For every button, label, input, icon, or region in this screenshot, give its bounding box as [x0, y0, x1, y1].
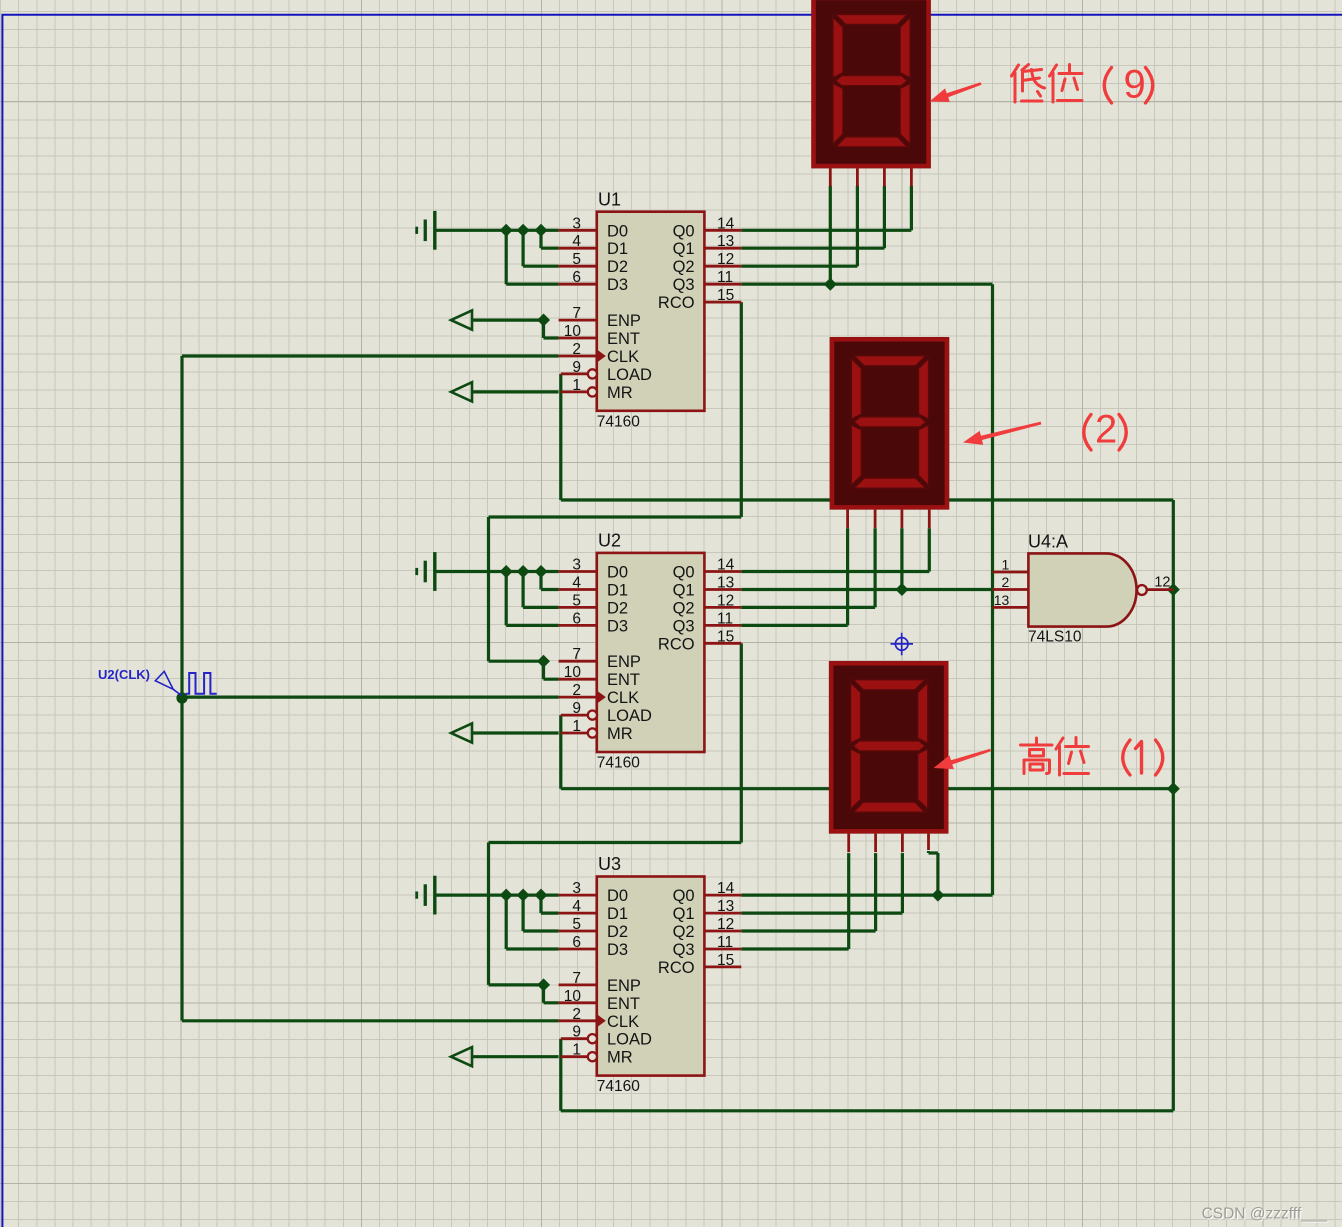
svg-text:3: 3 [572, 215, 581, 232]
7-segment display DS3 (high digit) [829, 661, 949, 852]
svg-text:15: 15 [717, 628, 734, 645]
svg-text:D1: D1 [607, 905, 628, 923]
svg-text:74160: 74160 [597, 413, 640, 430]
wire U3 LOAD/MR tie down to reset rail [561, 1039, 1174, 1111]
svg-text:6: 6 [572, 934, 581, 951]
svg-text:2: 2 [572, 341, 581, 358]
svg-text:D2: D2 [607, 599, 628, 617]
svg-text:CLK: CLK [607, 689, 639, 707]
wire U1 Q2 to DS1 pin2 [741, 186, 857, 266]
wire U2 Q1 to DS2 pin3 and U4 input 2 [741, 528, 992, 589]
svg-text:RCO: RCO [658, 294, 695, 312]
svg-text:1: 1 [1002, 557, 1010, 573]
node U1 D0 junction a [500, 224, 513, 237]
svg-text:9: 9 [572, 1024, 581, 1041]
svg-text:D3: D3 [607, 617, 628, 635]
svg-text:4: 4 [572, 575, 581, 592]
svg-text:5: 5 [572, 592, 581, 609]
wire U2 MR net to terminal arrow [472, 731, 559, 734]
svg-text:15: 15 [717, 952, 734, 969]
svg-text:74160: 74160 [597, 755, 640, 772]
node U1 ENP junction [537, 314, 550, 327]
wire ground net to U3 D0-D3 [436, 895, 558, 949]
svg-text:MR: MR [607, 1049, 633, 1067]
U4:A value label 74LS10 [1028, 629, 1082, 646]
svg-text:1: 1 [572, 1042, 581, 1059]
svg-text:ENT: ENT [607, 330, 640, 348]
svg-text:MR: MR [607, 384, 633, 402]
node U3 D0 junction a [500, 889, 513, 902]
annotation text (2) [1084, 408, 1127, 452]
svg-text:LOAD: LOAD [607, 707, 652, 725]
svg-text:LOAD: LOAD [607, 1031, 652, 1049]
svg-text:Q3: Q3 [673, 617, 695, 635]
wire CLK net (clock rail and branches to U1/U2/U3 CLK) [182, 356, 559, 1021]
node U1 Q3 / DS1 pin1 junction [824, 278, 837, 291]
svg-text:13: 13 [717, 233, 734, 250]
U3 value label 74160 [597, 1078, 640, 1095]
svg-text:11: 11 [717, 269, 733, 286]
clock generator U2(CLK) node dot [176, 692, 187, 703]
svg-text:3: 3 [572, 557, 581, 574]
wire U2 LOAD/MR tie down to reset rail [561, 715, 1174, 789]
clock generator U2(CLK) triangle symbol [155, 671, 181, 695]
U4:A pin numbers 1 2 13 12 [994, 557, 1171, 609]
svg-text:12: 12 [717, 916, 734, 933]
svg-text:ENP: ENP [607, 312, 641, 330]
annotation arrow to DS2 [963, 422, 1041, 445]
svg-text:CSDN @zzzfff___: CSDN @zzzfff___ [1202, 1206, 1328, 1223]
svg-text:Q0: Q0 [673, 222, 695, 240]
U4:A reference label [1028, 532, 1068, 552]
U2 reference label [598, 531, 621, 551]
counter U2 74160 body [559, 553, 742, 752]
svg-text:U4:A: U4:A [1028, 532, 1068, 552]
svg-text:D3: D3 [607, 276, 628, 294]
node DS3 pin4 junction [931, 889, 944, 902]
terminal arrow U1 MR [451, 382, 472, 401]
wire ground net to U2 D0-D3 [436, 572, 558, 626]
annotation text 高位 (1) [1021, 738, 1163, 776]
terminal arrow U3 MR [451, 1047, 472, 1066]
svg-text:ENP: ENP [607, 653, 641, 671]
svg-text:LOAD: LOAD [607, 366, 652, 384]
svg-text:CLK: CLK [607, 1013, 639, 1031]
wire U1 Q3 to DS1 pin1 and U4 inputs and U3 Q0 column [741, 186, 992, 895]
U1 reference label [598, 189, 621, 209]
7-segment display DS2 (middle digit) [830, 337, 950, 528]
svg-text:6: 6 [572, 269, 581, 286]
svg-text:14: 14 [717, 215, 735, 232]
svg-text:CLK: CLK [607, 348, 639, 366]
svg-text:10: 10 [564, 664, 582, 681]
wire U2 Q0 to DS2 pin4 [741, 528, 929, 571]
svg-text:1: 1 [572, 377, 581, 394]
svg-text:74LS10: 74LS10 [1028, 629, 1082, 646]
svg-text:11: 11 [717, 610, 733, 627]
node U3 ENP junction [537, 978, 550, 991]
svg-text:5: 5 [572, 251, 581, 268]
node U1 D0 junction c [534, 224, 547, 237]
svg-text:Q1: Q1 [673, 582, 695, 600]
svg-text:1: 1 [572, 718, 581, 735]
wire U2 RCO to U3 ENP/ENT [489, 643, 742, 1003]
node U3 D0 junction c [534, 889, 547, 902]
annotation text 低位 (9) [1012, 63, 1153, 107]
svg-text:D2: D2 [607, 923, 628, 941]
svg-text:4: 4 [572, 233, 581, 250]
node U2 ENP junction [537, 655, 550, 668]
node U2 D0 junction a [500, 565, 513, 578]
node U4 output junction [1167, 583, 1180, 596]
svg-text:9: 9 [1124, 63, 1146, 107]
U3 pin names [607, 887, 695, 1067]
svg-text:D1: D1 [607, 582, 628, 600]
svg-text:7: 7 [572, 646, 581, 663]
svg-text:10: 10 [564, 988, 582, 1005]
svg-text:D0: D0 [607, 887, 628, 905]
svg-text:D0: D0 [607, 564, 628, 582]
svg-text:Q1: Q1 [673, 905, 695, 923]
wire ground net to U1 D0-D3 [436, 230, 558, 284]
wire U4 output reset rail [1172, 500, 1175, 1111]
ground symbol at U1 D inputs [415, 211, 436, 250]
counter U3 74160 body [559, 877, 742, 1076]
svg-text:2: 2 [572, 682, 581, 699]
svg-text:ENT: ENT [607, 671, 640, 689]
wire U3 Q1 to DS3 pin3 [741, 853, 902, 913]
svg-text:D1: D1 [607, 240, 628, 258]
svg-text:D3: D3 [607, 941, 628, 959]
U3 pin numbers [564, 880, 735, 1059]
annotation arrow to DS3 (high digit) [934, 749, 991, 769]
ground symbol at U2 D inputs [415, 552, 436, 591]
svg-text:7: 7 [572, 305, 581, 322]
7-segment display DS1 (low digit) [811, 0, 931, 186]
svg-text:74160: 74160 [597, 1078, 640, 1095]
svg-text:D2: D2 [607, 258, 628, 276]
svg-text:ENP: ENP [607, 977, 641, 995]
U1 pin names [607, 222, 695, 402]
svg-text:12: 12 [717, 592, 734, 609]
svg-text:2: 2 [1095, 408, 1117, 452]
wire U3 Q0 row to long vertical [741, 893, 992, 896]
svg-text:U3: U3 [598, 854, 621, 874]
U2 pin numbers [564, 557, 735, 736]
wire U3 Q2 to DS3 pin2 [741, 853, 875, 931]
svg-text:U1: U1 [598, 189, 621, 209]
svg-text:Q2: Q2 [673, 258, 695, 276]
svg-text:2: 2 [1002, 574, 1010, 590]
node U2 D0 junction b [517, 565, 530, 578]
svg-text:7: 7 [572, 970, 581, 987]
svg-text:9: 9 [572, 359, 581, 376]
svg-text:U2(CLK): U2(CLK) [98, 667, 150, 682]
svg-text:Q0: Q0 [673, 887, 695, 905]
svg-text:Q0: Q0 [673, 564, 695, 582]
wire U1 RCO to U2 ENP/ENT [489, 302, 742, 679]
wire U1 ENP/ENT net [472, 320, 559, 338]
U3 reference label [598, 854, 621, 874]
svg-text:Q1: Q1 [673, 240, 695, 258]
svg-text:14: 14 [717, 880, 735, 897]
node reset rail junction [1167, 782, 1180, 795]
terminal arrow U1 ENP/ENT [451, 310, 472, 329]
annotation arrow to DS1 (low digit) [930, 82, 982, 102]
wire U2 Q3 to DS2 pin1 [741, 528, 847, 625]
svg-text:15: 15 [717, 287, 734, 304]
svg-text:2: 2 [572, 1006, 581, 1023]
node U2 D0 junction c [534, 565, 547, 578]
node U2 Q1 / DS2 pin3 junction [895, 583, 908, 596]
svg-text:Q3: Q3 [673, 941, 695, 959]
svg-text:U2: U2 [598, 531, 621, 551]
svg-text:ENT: ENT [607, 995, 640, 1013]
wire U1 MR net to terminal arrow [472, 390, 559, 393]
svg-text:9: 9 [572, 700, 581, 717]
svg-text:6: 6 [572, 610, 581, 627]
svg-text:Q2: Q2 [673, 599, 695, 617]
svg-text:11: 11 [717, 934, 733, 951]
svg-text:RCO: RCO [658, 635, 695, 653]
origin marker crosshair [891, 633, 914, 656]
U1 value label 74160 [597, 413, 640, 430]
terminal arrow U2 MR [451, 723, 472, 742]
counter U1 74160 body [559, 212, 742, 411]
svg-text:13: 13 [717, 898, 734, 915]
node U3 D0 junction b [517, 889, 530, 902]
svg-text:Q2: Q2 [673, 923, 695, 941]
svg-text:5: 5 [572, 916, 581, 933]
svg-text:10: 10 [564, 323, 582, 340]
svg-text:14: 14 [717, 557, 735, 574]
U2 value label 74160 [597, 755, 640, 772]
node U1 D0 junction b [517, 224, 530, 237]
wire DS3 pin4 jog to U3 Q0 node [929, 851, 938, 895]
svg-text:3: 3 [572, 880, 581, 897]
svg-text:RCO: RCO [658, 959, 695, 977]
svg-text:13: 13 [994, 592, 1010, 608]
svg-text:Q3: Q3 [673, 276, 695, 294]
svg-text:MR: MR [607, 725, 633, 743]
wire U1 LOAD/MR tie down to reset rail [561, 374, 1174, 500]
svg-text:12: 12 [717, 251, 734, 268]
svg-text:12: 12 [1154, 575, 1170, 591]
svg-text:13: 13 [717, 575, 734, 592]
U2 pin names [607, 564, 695, 744]
clock generator U2(CLK) label [98, 667, 150, 682]
wire U1 Q0 to DS1 pin4 [741, 186, 911, 231]
svg-text:4: 4 [572, 898, 581, 915]
wire U3 MR net to terminal arrow [472, 1055, 559, 1058]
NAND gate U4:A 74LS10 body [993, 553, 1174, 626]
watermark CSDN @zzzfff___ [1202, 1206, 1329, 1224]
ground symbol at U3 D inputs [415, 876, 436, 915]
wire U1 Q1 to DS1 pin3 [741, 186, 884, 248]
wire U2 Q2 to DS2 pin2 [741, 528, 875, 607]
svg-text:D0: D0 [607, 222, 628, 240]
clock generator U2(CLK) square-wave glyph [186, 673, 217, 694]
U1 pin numbers [564, 215, 735, 394]
wire U3 Q3 to DS3 pin1 [741, 853, 848, 949]
